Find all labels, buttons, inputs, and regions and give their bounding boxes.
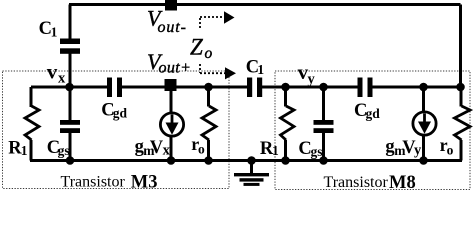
- label R1 (M8): [260, 139, 279, 159]
- node Cgs M3 bottom junction dot: [66, 156, 75, 165]
- label vx: [47, 59, 66, 86]
- svg-text:x: x: [163, 143, 171, 159]
- svg-text:gd: gd: [113, 106, 128, 121]
- svg-text:M3: M3: [131, 173, 158, 193]
- capacitor C1 top-left plates: [60, 39, 80, 54]
- svg-text:1: 1: [272, 143, 279, 158]
- label Cgd (M3): [101, 101, 127, 121]
- wire R1 M8 top lead: [284, 87, 287, 107]
- capacitor Cgs (M3) plates: [60, 120, 80, 133]
- svg-text:M8: M8: [389, 173, 416, 192]
- label vy: [298, 60, 316, 87]
- svg-text:o: o: [447, 143, 454, 158]
- label Cgd (M8): [354, 101, 380, 121]
- label R1 (M3): [8, 139, 28, 159]
- label gmVx (M3): [135, 137, 171, 159]
- wire ro M3 bottom lead: [207, 140, 210, 161]
- wire right rail down to M8 drain: [459, 5, 462, 88]
- resistor ro (M8): [455, 106, 471, 140]
- dashed box Transistor M8: [275, 71, 470, 190]
- svg-text:gs: gs: [58, 143, 70, 158]
- current source gmVx (M3): [160, 113, 183, 136]
- wire ground stem: [250, 161, 253, 175]
- label ro (M3): [191, 134, 205, 157]
- label Vout-: [147, 6, 187, 36]
- ground: [234, 173, 269, 186]
- capacitor Cgd (M3) plates: [107, 78, 122, 98]
- svg-text:1: 1: [21, 143, 28, 158]
- wire ro M8 top lead: [460, 87, 463, 107]
- current source gmVy (M8): [413, 112, 436, 135]
- node ro M3 top junction dot: [204, 83, 213, 92]
- svg-text:gd: gd: [366, 106, 381, 121]
- wire M8 drain (Cgd to ro): [373, 86, 461, 89]
- svg-text:Z: Z: [190, 35, 203, 60]
- node R1 M8 bottom junction dot: [281, 156, 290, 165]
- wire R1 M8 bottom lead: [284, 140, 287, 161]
- node current source M8 bottom junction dot: [419, 156, 428, 165]
- Vout+ dotted probe arrow: [200, 64, 225, 73]
- label ro (M8): [440, 135, 454, 158]
- node square Vout- probe on top rail: [165, 0, 177, 11]
- node current source M3 bottom junction dot: [167, 156, 176, 165]
- node ro M3 bottom junction dot: [204, 156, 213, 165]
- label Cgs (M8): [298, 139, 322, 159]
- svg-text:y: y: [308, 72, 316, 88]
- svg-text:out+: out+: [159, 60, 192, 77]
- wire current source M8 bottom stem: [422, 135, 425, 161]
- wire top rail: [69, 3, 461, 6]
- svg-text:o: o: [205, 45, 213, 62]
- wire ro M8 bottom lead: [460, 140, 463, 161]
- svg-text:1: 1: [257, 62, 264, 77]
- node vx junction dot: [65, 83, 74, 92]
- svg-text:Transistor: Transistor: [61, 174, 126, 191]
- resistor ro (M3): [202, 106, 216, 140]
- svg-text:gs: gs: [311, 144, 323, 159]
- node Cgs M8 bottom junction dot: [319, 156, 328, 165]
- wire Cgs M8 top lead: [322, 87, 325, 120]
- dashed box Transistor M3: [3, 71, 230, 189]
- label Vout+: [147, 49, 191, 77]
- svg-text:Transistor: Transistor: [324, 174, 389, 191]
- wire Cgs M3 top lead: [69, 87, 72, 120]
- label C1 (top-left): [39, 19, 58, 39]
- label gmVy (M8): [385, 137, 422, 159]
- label Zo: [190, 35, 213, 63]
- capacitor Cgs (M8) plates: [314, 120, 334, 133]
- wire M3 gate (vx to Cgd): [31, 86, 107, 89]
- wire M3 drain (Cgd to C1 mid): [122, 86, 247, 89]
- wire R1 M3 bottom lead: [30, 140, 33, 161]
- wire current source M8 top stem: [422, 87, 425, 113]
- wire current source M3 bottom stem: [170, 136, 173, 161]
- Vout- dotted probe arrow: [200, 17, 224, 30]
- label Cgs (M3): [47, 138, 70, 158]
- wire current source M3 top stem: [170, 87, 173, 114]
- label C1 (mid): [246, 57, 265, 77]
- wire Cgs M3 bottom lead: [69, 133, 72, 161]
- wire bottom rail: [30, 159, 462, 162]
- svg-text:y: y: [414, 143, 422, 159]
- node current source M8 top junction dot: [419, 83, 428, 92]
- wire R1 M3 top lead: [30, 87, 33, 107]
- svg-text:x: x: [58, 71, 66, 87]
- resistor R1 (M8): [281, 106, 295, 140]
- svg-text:v: v: [47, 59, 58, 83]
- node Cgs M8 top junction dot: [319, 83, 328, 92]
- svg-text:o: o: [198, 142, 205, 157]
- capacitor Cgd (M8) plates: [358, 78, 373, 98]
- node square Vout+ probe on M3 drain: [165, 79, 177, 91]
- svg-text:1: 1: [51, 25, 58, 40]
- wire C1 top lead: [69, 5, 72, 40]
- wire Cgs M8 bottom lead: [322, 133, 325, 161]
- node ro M8 / right rail junction dot: [456, 83, 465, 92]
- capacitor C1 mid coupling plates: [247, 78, 262, 98]
- wire ro M3 top lead: [207, 87, 210, 107]
- svg-text:out-: out-: [158, 19, 187, 36]
- resistor R1 (M3): [25, 106, 39, 140]
- node R1 M8 top junction dot: [281, 83, 290, 92]
- node ground junction dot: [247, 156, 256, 165]
- wire C1 mid right to M8 gate: [262, 86, 358, 89]
- wire C1 bottom lead to node vx: [69, 54, 72, 88]
